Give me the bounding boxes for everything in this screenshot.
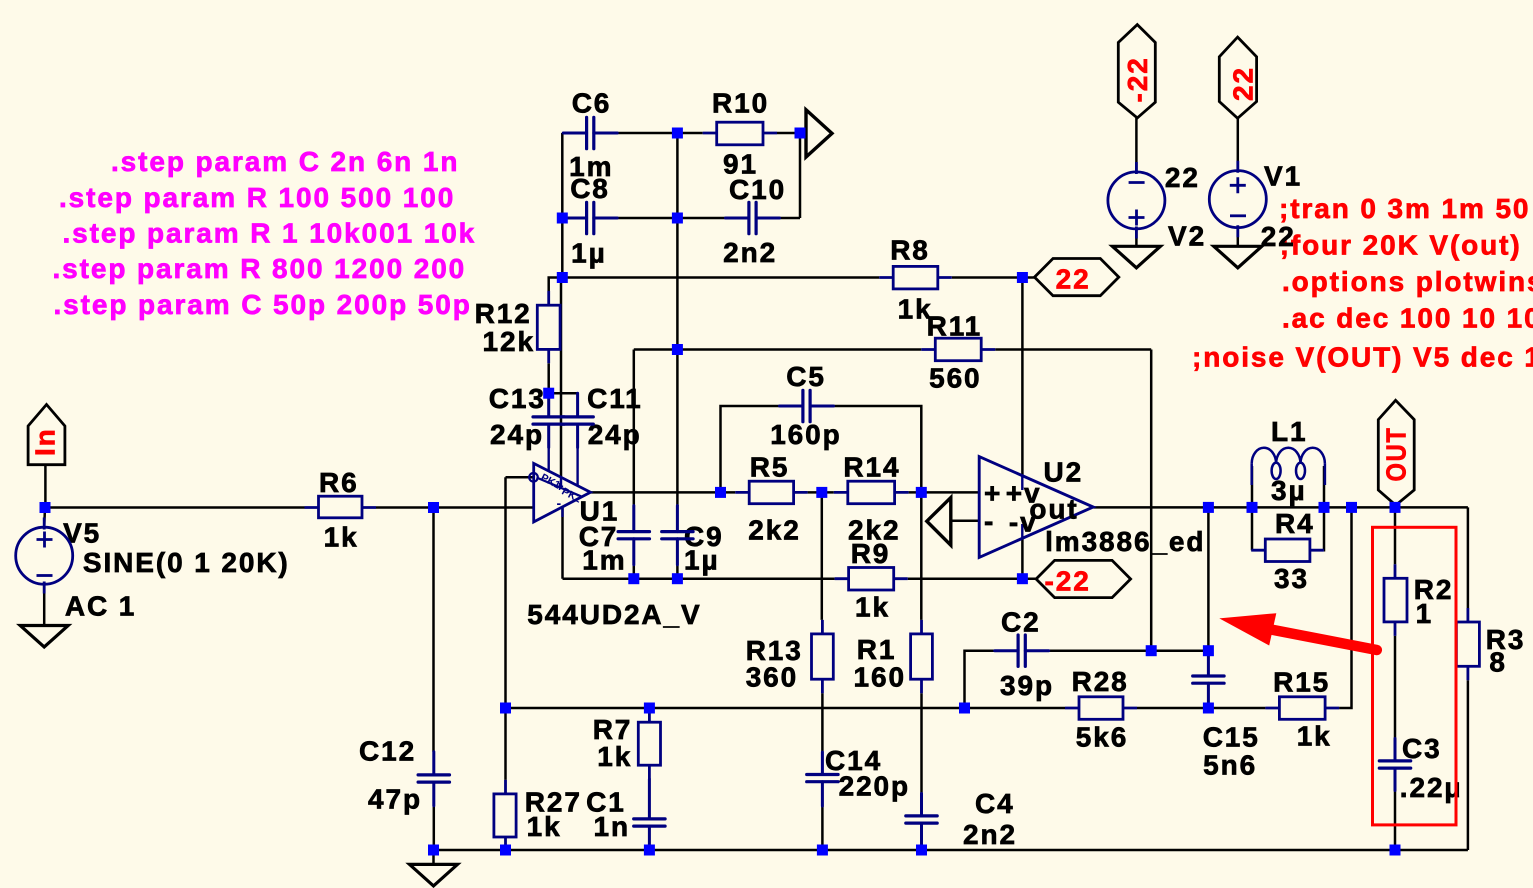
svg-text:V1: V1 bbox=[1264, 161, 1302, 192]
wire L1 right riser bbox=[1323, 466, 1326, 507]
wire C10 left to junction bbox=[677, 217, 725, 220]
wire R4 right riser bbox=[1323, 507, 1326, 550]
capacitor C12 bbox=[418, 752, 449, 806]
node L1 right bbox=[1319, 502, 1330, 513]
capacitor C9 bbox=[662, 506, 693, 565]
svg-text:.22µ: .22µ bbox=[1400, 772, 1463, 803]
net flag OUT bbox=[1378, 400, 1414, 505]
wire C7 corner to junction bbox=[634, 348, 678, 351]
wire C12 to ground rail bbox=[433, 806, 436, 850]
capacitor C5 bbox=[780, 390, 834, 421]
svg-text:-22: -22 bbox=[1122, 56, 1153, 102]
svg-text:R6: R6 bbox=[319, 467, 359, 498]
svg-text:560: 560 bbox=[929, 363, 981, 394]
svg-text:2n2: 2n2 bbox=[963, 819, 1017, 850]
wire C5 right to corner down bbox=[834, 406, 922, 492]
wire left flag to U2 minus input bbox=[952, 520, 980, 523]
node C6/R10 bbox=[672, 128, 683, 139]
wire C9 bottom stub bbox=[676, 565, 679, 579]
svg-text:.step param R 100 500 100: .step param R 100 500 100 bbox=[59, 182, 455, 213]
svg-text:22: 22 bbox=[1227, 66, 1258, 101]
resistor R3 bbox=[1456, 608, 1479, 680]
voltage source V2 bbox=[1108, 162, 1165, 239]
svg-text:1: 1 bbox=[1416, 598, 1433, 629]
svg-text:R10: R10 bbox=[712, 88, 769, 119]
wire U1 plus input bbox=[506, 476, 534, 479]
svg-text:R9: R9 bbox=[851, 538, 891, 569]
node -22/U2 V- bbox=[1017, 573, 1028, 584]
node In/V5/R6 bbox=[40, 502, 51, 513]
svg-text:1µ: 1µ bbox=[571, 238, 607, 269]
node C8/C10 bbox=[672, 213, 683, 224]
svg-text:R12: R12 bbox=[475, 298, 532, 329]
resistor R9 bbox=[835, 568, 908, 591]
capacitor C3 bbox=[1379, 739, 1410, 791]
capacitor C8 bbox=[563, 202, 617, 233]
net flag -22 top bbox=[1118, 25, 1155, 118]
svg-text:C8: C8 bbox=[570, 173, 610, 204]
svg-text:R28: R28 bbox=[1072, 666, 1129, 697]
svg-text:.options plotwins: .options plotwins bbox=[1282, 266, 1533, 297]
svg-text:.step param R 800 1200 200: .step param R 800 1200 200 bbox=[53, 253, 467, 284]
resistor R5 bbox=[735, 481, 807, 504]
wire In flag stub bbox=[44, 465, 47, 508]
wire U2 V+ vertical bbox=[1021, 278, 1024, 476]
svg-text:OUT: OUT bbox=[1380, 427, 1411, 482]
svg-text:-: - bbox=[557, 495, 562, 511]
svg-text:1m: 1m bbox=[582, 545, 626, 576]
wire R4 left riser bbox=[1250, 507, 1253, 550]
resistor R7 bbox=[638, 708, 660, 779]
node C2 branch bbox=[959, 703, 970, 714]
wire C2 branch riser bbox=[965, 651, 995, 708]
svg-text:C15: C15 bbox=[1203, 722, 1260, 753]
svg-text:out: out bbox=[1029, 494, 1078, 525]
svg-text:5n6: 5n6 bbox=[1203, 750, 1257, 781]
node C9 bottom bbox=[672, 573, 683, 584]
wire R9 right to -22 flag bbox=[908, 577, 1036, 580]
resistor R12 bbox=[537, 291, 560, 363]
node gnd C1 bbox=[644, 845, 655, 856]
wire R10 to junction bbox=[777, 132, 806, 135]
node gnd R27 bbox=[500, 845, 511, 856]
wire output row U2 to R3 corner bbox=[1093, 506, 1468, 509]
wire C5 left riser bbox=[721, 406, 780, 492]
svg-text:2k2: 2k2 bbox=[748, 515, 800, 546]
wire R27 top stub bbox=[504, 708, 507, 780]
node L1 left bbox=[1247, 502, 1258, 513]
svg-text:L1: L1 bbox=[1271, 416, 1307, 447]
node gnd C12 bbox=[428, 845, 439, 856]
svg-text:2n2: 2n2 bbox=[723, 237, 777, 268]
voltage source V1 bbox=[1209, 161, 1266, 238]
wire junction to R11 bbox=[677, 348, 921, 351]
svg-text:1k: 1k bbox=[1297, 721, 1332, 752]
capacitor C11 bbox=[562, 393, 593, 447]
svg-text:C11: C11 bbox=[587, 383, 643, 414]
svg-text:22: 22 bbox=[1056, 264, 1091, 295]
wire C8 to junction bbox=[617, 217, 677, 220]
wire input row from In/V5 to R6 bbox=[45, 506, 305, 509]
node U1 out/C5 bbox=[715, 487, 726, 498]
svg-text:C13: C13 bbox=[489, 383, 546, 414]
wire U2 V- down to junction bbox=[1021, 538, 1024, 578]
svg-text:R15: R15 bbox=[1273, 667, 1330, 698]
svg-text:C10: C10 bbox=[729, 174, 786, 205]
svg-text:12k: 12k bbox=[483, 326, 535, 357]
wire R28 to C15 junction bbox=[1137, 707, 1265, 710]
svg-text:V2: V2 bbox=[1168, 221, 1206, 252]
wire bottom ground rail bbox=[434, 849, 1468, 852]
wire L1 left riser bbox=[1251, 466, 1254, 507]
wire R13 to C14 bbox=[821, 693, 824, 752]
svg-text:;tran 0 3m 1m 50: ;tran 0 3m 1m 50 bbox=[1279, 193, 1530, 224]
port flag right of R10 bbox=[806, 110, 832, 157]
ground main rail bbox=[410, 864, 458, 886]
wire +22 rail right to 22 flag bbox=[952, 276, 1035, 279]
wire R13 column top bbox=[821, 492, 824, 620]
svg-text:R5: R5 bbox=[750, 452, 790, 483]
capacitor C13 bbox=[533, 393, 564, 447]
node gnd C14 bbox=[817, 845, 828, 856]
wire U1 V- pin down bbox=[561, 508, 564, 579]
ground V2 bbox=[1112, 246, 1160, 267]
wire C6/C8 left vertical bbox=[561, 133, 564, 278]
svg-text:22: 22 bbox=[1261, 221, 1296, 252]
svg-text:160: 160 bbox=[854, 662, 906, 693]
wire R3 bottom to rail bbox=[1467, 680, 1470, 850]
net flag 22 top bbox=[1219, 37, 1258, 118]
wire C3 bottom to rail bbox=[1394, 791, 1397, 851]
svg-text:In: In bbox=[30, 427, 61, 456]
wire V5 top stub bbox=[43, 508, 46, 528]
wire V2 to ground bbox=[1135, 229, 1138, 246]
wire R12 bottom to C13 junction bbox=[547, 363, 550, 393]
wire C7 bottom stub bbox=[633, 565, 636, 579]
net flag -22 hexagon bbox=[1036, 560, 1131, 597]
wire +22 rail left bbox=[562, 276, 879, 279]
svg-text:R1: R1 bbox=[857, 634, 897, 665]
svg-text:39p: 39p bbox=[1000, 670, 1054, 701]
wire mid rail R27 to R7 bbox=[506, 707, 650, 710]
svg-text:22: 22 bbox=[1165, 162, 1200, 193]
wire C12 branch vertical bbox=[432, 508, 435, 752]
svg-text:C4: C4 bbox=[975, 788, 1015, 819]
node gnd C3 bbox=[1390, 845, 1401, 856]
node R10/C10 right bbox=[795, 128, 806, 139]
op-amp U1 544UD2A_V bbox=[529, 448, 590, 522]
wire V1 to ground bbox=[1237, 228, 1240, 247]
svg-text:.step param C 2n 6n 1n: .step param C 2n 6n 1n bbox=[111, 146, 459, 177]
port flag left of U2 bbox=[927, 498, 951, 546]
svg-text:SINE(0 1 20K): SINE(0 1 20K) bbox=[83, 547, 290, 578]
wire R5 to R14 bbox=[808, 491, 834, 494]
svg-text:544UD2A_V: 544UD2A_V bbox=[527, 599, 701, 630]
capacitor C15 bbox=[1193, 651, 1224, 708]
resistor R2 bbox=[1384, 564, 1407, 636]
wire C13-C11 jog bbox=[549, 392, 578, 395]
svg-text:1k: 1k bbox=[527, 811, 562, 842]
wire C2 right row bbox=[1049, 649, 1209, 652]
op-amp U2 lm3886_ed bbox=[979, 457, 1093, 558]
resistor R1 bbox=[911, 620, 933, 693]
svg-text:24p: 24p bbox=[588, 419, 642, 450]
node +22/R8/U2 V+ bbox=[1017, 272, 1028, 283]
svg-text:AC 1: AC 1 bbox=[65, 591, 136, 622]
svg-text:5k6: 5k6 bbox=[1076, 722, 1128, 753]
resistor R27 bbox=[494, 780, 516, 851]
node R14/C5/R1/U2+ bbox=[916, 487, 927, 498]
capacitor C2 bbox=[995, 635, 1049, 666]
resistor R28 bbox=[1065, 697, 1137, 720]
node C15 bottom rail bbox=[1203, 703, 1214, 714]
svg-text:33: 33 bbox=[1274, 563, 1309, 594]
svg-text:C2: C2 bbox=[1001, 607, 1041, 638]
wire V2 flag to source bbox=[1135, 118, 1138, 172]
svg-text:lm3886_ed: lm3886_ed bbox=[1045, 526, 1205, 557]
svg-text:1k: 1k bbox=[855, 592, 890, 623]
svg-text:+: + bbox=[984, 478, 1002, 509]
resistor R10 bbox=[703, 122, 777, 145]
svg-text:;four 20K V(out): ;four 20K V(out) bbox=[1280, 229, 1522, 260]
wire C6 row to junction bbox=[617, 132, 677, 135]
resistor R14 bbox=[834, 481, 909, 504]
node R7 top bbox=[644, 703, 655, 714]
wire U1 V+ vertical bbox=[560, 278, 563, 478]
svg-text:-22: -22 bbox=[1045, 566, 1091, 597]
voltage source V5 bbox=[16, 518, 73, 594]
wire C6-C8-C9 long vertical bbox=[676, 133, 679, 506]
svg-text:360: 360 bbox=[746, 662, 798, 693]
wire R6 to U1 inverting input bbox=[376, 506, 534, 509]
svg-text:8: 8 bbox=[1489, 647, 1506, 678]
wire corner down to C2 row bbox=[1150, 350, 1153, 651]
svg-text:R8: R8 bbox=[890, 234, 930, 265]
svg-text:1k: 1k bbox=[597, 741, 632, 772]
wire R1 column top bbox=[920, 492, 923, 620]
wire R3 top riser bbox=[1467, 507, 1470, 608]
wire V5 ground stub bbox=[43, 584, 46, 625]
wire ground stub bottom rail bbox=[432, 850, 435, 864]
net flag 22 hexagon bbox=[1035, 259, 1119, 296]
node R15 riser bbox=[1346, 502, 1357, 513]
red arrow bbox=[1219, 613, 1377, 650]
svg-text:.step param R 1 10k001 10k: .step param R 1 10k001 10k bbox=[63, 218, 477, 249]
wire output tap down to C2 row bbox=[1207, 507, 1210, 650]
node C8 left bbox=[557, 213, 568, 224]
svg-text:160p: 160p bbox=[770, 419, 841, 450]
wire R1 to C4 bbox=[920, 693, 923, 793]
wire U1 output row bbox=[591, 491, 736, 494]
svg-text:U2: U2 bbox=[1044, 457, 1084, 488]
node C2/R11 tap bbox=[1146, 645, 1157, 656]
wire R11 right to corner bbox=[995, 348, 1151, 351]
red highlight rectangle bbox=[1373, 527, 1457, 825]
wire C10 right stub bbox=[780, 217, 801, 220]
ground V1 bbox=[1214, 246, 1262, 267]
node +22 rail left bbox=[557, 272, 568, 283]
svg-text:;noise V(OUT) V5 dec 1: ;noise V(OUT) V5 dec 1 bbox=[1192, 341, 1533, 372]
svg-text:.ac dec 100 10 10: .ac dec 100 10 10 bbox=[1282, 303, 1533, 334]
node U1+ bias rail bbox=[500, 703, 511, 714]
node C2/C15 top bbox=[1203, 645, 1214, 656]
resistor R13 bbox=[812, 620, 834, 693]
capacitor C4 bbox=[906, 794, 937, 851]
wire R15 right corner riser bbox=[1339, 507, 1351, 708]
node C7/C9/R11 bbox=[672, 344, 683, 355]
inductor L1 bbox=[1252, 448, 1325, 485]
svg-text:C5: C5 bbox=[786, 361, 826, 392]
wire R2 to C3 bbox=[1394, 636, 1397, 739]
wire R12 top jog bbox=[549, 278, 563, 292]
wire R2 top stub bbox=[1394, 507, 1397, 564]
node R6/C12/U1 inv bbox=[428, 502, 439, 513]
svg-text:C12: C12 bbox=[359, 736, 416, 767]
wire C14 to ground rail bbox=[821, 806, 824, 850]
wire R14 to U2 plus input bbox=[909, 491, 980, 494]
resistor R8 bbox=[879, 266, 952, 289]
node OUT/R2 bbox=[1390, 502, 1401, 513]
svg-text:C6: C6 bbox=[572, 88, 612, 119]
svg-text:220p: 220p bbox=[839, 771, 910, 802]
resistor R4 bbox=[1251, 539, 1324, 562]
svg-text:-: - bbox=[984, 506, 995, 537]
resistor R6 bbox=[305, 496, 377, 518]
svg-text:47p: 47p bbox=[368, 784, 422, 815]
wire plus-input vertical to rail bbox=[504, 477, 507, 708]
wire R10 right down to C10 bbox=[799, 133, 802, 218]
wire U1 V- row bbox=[563, 577, 835, 580]
resistor R11 bbox=[921, 338, 995, 361]
node out tap bbox=[1203, 502, 1214, 513]
node C7 bottom bbox=[628, 573, 639, 584]
capacitor C14 bbox=[807, 752, 838, 806]
svg-text:.step param C 50p 200p 50p: .step param C 50p 200p 50p bbox=[54, 289, 472, 320]
node R5/R14/R13 bbox=[816, 487, 827, 498]
wire V1 flag to source bbox=[1237, 118, 1240, 170]
capacitor C6 bbox=[563, 117, 617, 148]
node R12/C13/C11 bbox=[543, 388, 554, 399]
svg-text:1k: 1k bbox=[324, 522, 359, 553]
wire junction to R10 bbox=[677, 132, 702, 135]
resistor R15 bbox=[1265, 697, 1339, 720]
wire mid rail R7 to C2 branch bbox=[649, 707, 1065, 710]
svg-text:1µ: 1µ bbox=[684, 545, 720, 576]
svg-text:R14: R14 bbox=[843, 452, 900, 483]
ground V5 bbox=[20, 626, 68, 648]
capacitor C10 bbox=[726, 202, 780, 233]
wire C7 top riser bbox=[633, 350, 636, 506]
node gnd C4 bbox=[916, 845, 927, 856]
capacitor C1 bbox=[634, 779, 665, 850]
svg-text:1n: 1n bbox=[594, 811, 630, 842]
capacitor C7 bbox=[618, 506, 649, 565]
svg-text:R4: R4 bbox=[1275, 508, 1315, 539]
net flag In bbox=[28, 405, 65, 465]
